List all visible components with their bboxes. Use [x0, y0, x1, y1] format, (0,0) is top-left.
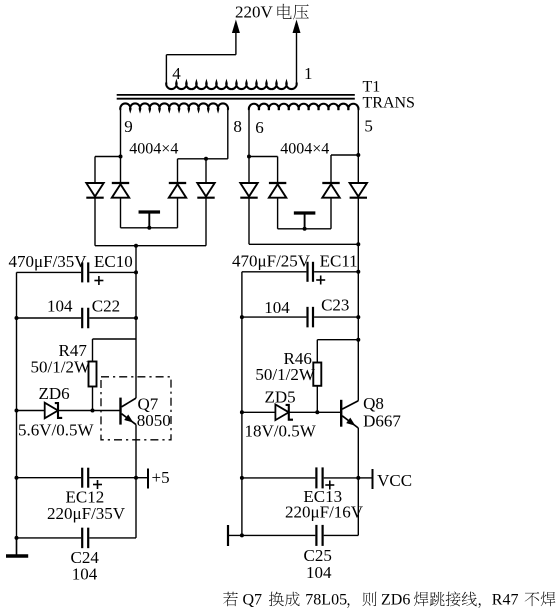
svg-text:C23: C23	[321, 296, 349, 315]
svg-text:470μF/25V: 470μF/25V	[232, 252, 311, 271]
svg-text:220μF/16V: 220μF/16V	[285, 503, 364, 522]
svg-text:ZD6: ZD6	[381, 592, 410, 609]
svg-text:104: 104	[264, 298, 290, 317]
svg-text:4004×4: 4004×4	[129, 141, 178, 158]
svg-text:TRANS: TRANS	[363, 95, 415, 112]
svg-text:6: 6	[255, 118, 263, 137]
svg-text:104: 104	[72, 565, 98, 584]
svg-text:1: 1	[304, 64, 313, 83]
svg-text:78L05: 78L05	[305, 592, 347, 609]
svg-text:VCC: VCC	[377, 471, 412, 490]
svg-text:50/1/2W: 50/1/2W	[31, 358, 91, 377]
svg-text:50/1/2W: 50/1/2W	[255, 365, 315, 384]
svg-text:5.6V/0.5W: 5.6V/0.5W	[18, 421, 95, 440]
svg-text:T1: T1	[363, 78, 381, 95]
svg-text:R47: R47	[492, 592, 519, 609]
svg-text:Q7: Q7	[243, 592, 263, 609]
svg-text:EC10: EC10	[94, 252, 133, 271]
svg-text:18V/0.5W: 18V/0.5W	[245, 422, 317, 441]
svg-text:9: 9	[124, 117, 133, 136]
svg-text:D667: D667	[363, 412, 401, 431]
svg-text:ZD6: ZD6	[39, 384, 70, 403]
svg-text:EC11: EC11	[320, 252, 358, 271]
svg-text:4004×4: 4004×4	[280, 140, 329, 157]
svg-text:220μF/35V: 220μF/35V	[47, 504, 126, 523]
svg-text:220V: 220V	[235, 3, 274, 22]
svg-text:470μF/35V: 470μF/35V	[9, 252, 88, 271]
svg-text:4: 4	[172, 64, 181, 83]
svg-text:ZD5: ZD5	[265, 388, 296, 407]
svg-text:104: 104	[47, 297, 73, 316]
svg-text:Q8: Q8	[363, 394, 384, 413]
svg-text:C22: C22	[92, 297, 120, 316]
svg-text:8: 8	[233, 117, 242, 136]
svg-text:+5: +5	[152, 468, 170, 487]
svg-text:8050: 8050	[137, 411, 171, 430]
svg-text:5: 5	[364, 117, 373, 136]
svg-text:104: 104	[306, 563, 332, 582]
